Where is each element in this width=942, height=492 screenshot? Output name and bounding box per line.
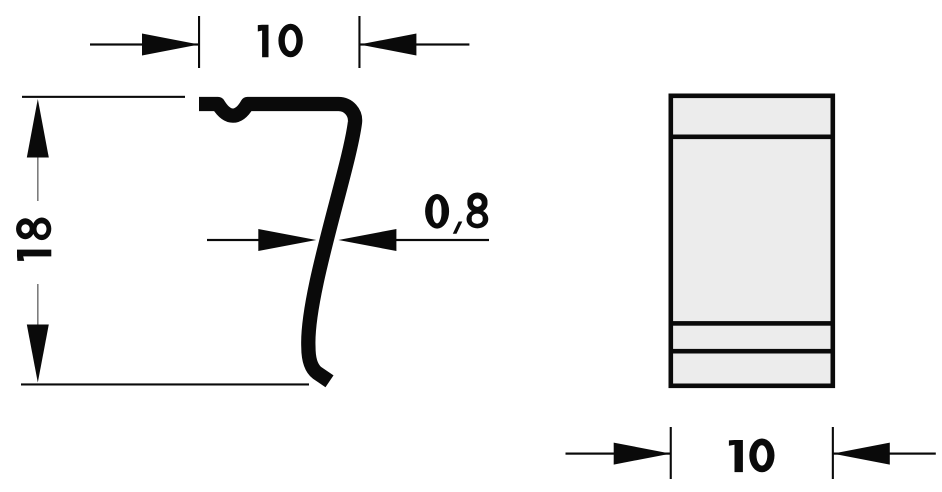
dimension line 0,8 right tail: [395, 239, 489, 241]
dimension line 0,8 left tail: [207, 239, 260, 241]
extension line bottom (18 dim, lower): [21, 383, 309, 385]
dimension line top 10 right tail: [359, 43, 469, 45]
arrowhead bottom 10 right: [833, 443, 890, 465]
label 10 bottom (digit 1): [729, 440, 743, 472]
label 0,8 (comma): [453, 222, 463, 234]
label 0,8 (digit 0): [425, 194, 449, 229]
tick right (top 10 dim): [358, 16, 360, 68]
dimension line top 10 left tail: [90, 43, 199, 45]
arrowhead 18 down: [27, 325, 49, 383]
arrowhead bottom 10 left: [614, 443, 671, 465]
tick left (bottom 10 dim): [670, 427, 672, 479]
clip profile (side view, thick bent sheet): [199, 104, 355, 381]
arrowhead 0,8 left: [258, 229, 316, 251]
label 18 (rotated digits): [16, 218, 51, 261]
label 0,8 (digit 8): [466, 192, 488, 228]
front view section line lower A: [669, 321, 835, 326]
front view section line upper: [669, 135, 835, 140]
label 10 top (digit 1): [258, 25, 269, 58]
arrowhead top 10 left: [142, 34, 199, 56]
arrowhead 18 up: [27, 99, 49, 158]
tick left (top 10 dim): [198, 16, 200, 68]
dimension line bottom 10 left tail: [566, 453, 671, 455]
dimension line 18 (thin gray segments): [37, 156, 39, 201]
label 10 top (digit 0): [278, 24, 302, 58]
dimension line bottom 10 right tail: [833, 453, 936, 455]
front view body rectangle: [671, 96, 833, 386]
label 10 bottom (digit 0): [749, 439, 774, 473]
extension line top (18 dim, upper): [22, 96, 185, 98]
front view section line lower B: [669, 349, 835, 354]
arrowhead 0,8 right: [338, 229, 396, 251]
arrowhead top 10 right: [359, 34, 416, 56]
tick right (bottom 10 dim): [832, 427, 834, 479]
